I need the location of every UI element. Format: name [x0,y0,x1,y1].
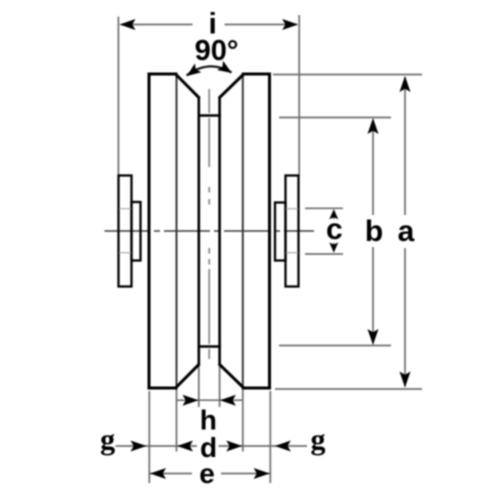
svg-text:b: b [365,215,383,248]
svg-text:e: e [199,458,215,489]
svg-text:a: a [398,215,415,248]
svg-text:g: g [100,423,115,456]
svg-text:h: h [200,405,217,436]
svg-text:g: g [311,423,326,456]
svg-text:90°: 90° [195,35,239,67]
svg-text:c: c [326,213,343,246]
